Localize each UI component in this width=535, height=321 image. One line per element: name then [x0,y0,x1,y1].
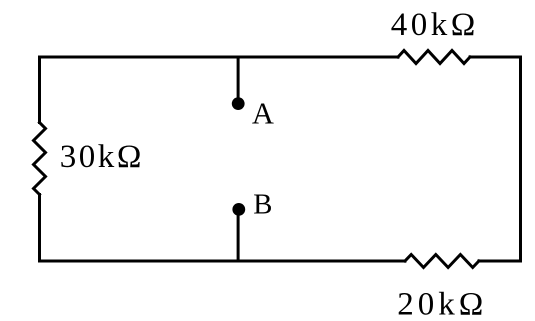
svg-text:40kΩ: 40kΩ [391,7,476,43]
resistor R_bottom 20k zigzag [405,255,479,268]
resistor R_top 40k zigzag [398,51,470,64]
node B dot [232,203,245,216]
wire top-left L (left wire upper + top wire to resistor) [40,57,399,123]
wire stub to node A [237,57,240,104]
wire stub to node B [237,209,240,261]
wire top-right corner + right wire [470,57,521,261]
svg-text:20kΩ: 20kΩ [397,287,483,321]
svg-text:A: A [252,96,274,130]
svg-text:B: B [253,188,272,220]
wire bottom-left L (bottom wire + left wire lower) [40,195,406,262]
svg-text:30kΩ: 30kΩ [60,139,142,175]
node A dot [232,97,245,110]
resistor R_left 30k zigzag [34,123,46,195]
